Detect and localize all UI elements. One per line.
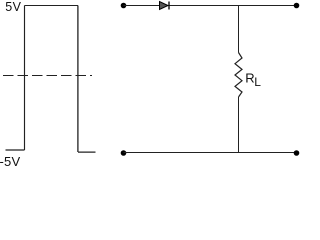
svg-text:L: L: [254, 75, 261, 89]
resistor RL (zigzag): [235, 53, 242, 98]
wire: top from diode cathode to output terminal: [170, 5, 297, 7]
svg-text:R: R: [245, 70, 254, 85]
wire: top from input dot to diode anode: [124, 5, 160, 7]
label RL: [245, 70, 261, 89]
node output terminal bottom (dot): [294, 150, 300, 156]
node output terminal top (dot): [294, 3, 300, 9]
wire: bottom rail: [124, 152, 297, 154]
node input terminal top (junction dot): [121, 3, 127, 9]
svg-text:5V: 5V: [5, 0, 21, 14]
wire: branch from top wire down to resistor: [238, 6, 240, 53]
diode D1: [160, 2, 170, 10]
node input terminal bottom (dot): [121, 150, 127, 156]
wire: from resistor bottom to bottom rail: [238, 97, 240, 153]
wire: input waveform low segment right: [78, 151, 96, 153]
svg-text:-5V: -5V: [0, 154, 20, 166]
wire: input waveform falling edge: [77, 6, 79, 153]
wire: input waveform low segment left: [6, 149, 25, 151]
node 0V reference (dashed zero line): [3, 75, 92, 77]
wire: input waveform high segment: [25, 5, 79, 7]
wire: input waveform rising edge: [24, 6, 26, 151]
